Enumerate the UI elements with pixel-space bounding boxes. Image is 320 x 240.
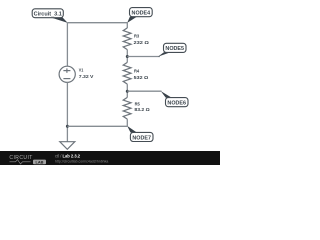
node NODE4 flag pointer [127, 17, 137, 23]
svg-text:NODE5: NODE5 [165, 46, 184, 52]
wire bottom horizontal [67, 125, 127, 127]
svg-text:V1: V1 [79, 67, 84, 72]
svg-text:NODE6: NODE6 [167, 101, 186, 107]
wire R3 to R4 [126, 50, 128, 63]
footer CircuitLab logo LAB box [33, 160, 46, 165]
node NODE6 label [166, 98, 189, 107]
svg-text:R3: R3 [134, 34, 140, 39]
wire to NODE6 flag [127, 90, 161, 92]
svg-text:R4: R4 [134, 69, 140, 74]
svg-text:7.32 V: 7.32 V [79, 74, 94, 80]
node NODE7 label [130, 132, 153, 141]
svg-text:532 Ω: 532 Ω [134, 75, 149, 81]
wire left vertical down to V1 [66, 23, 68, 67]
wire right vertical top to R3 [126, 23, 128, 28]
svg-text:R5: R5 [135, 102, 141, 107]
node NODE5 flag pointer [158, 52, 171, 56]
svg-text:83.2 Ω: 83.2 Ω [134, 107, 149, 113]
wire V1 bottom to ground [66, 82, 68, 141]
node Circuit_3.1 label [32, 9, 63, 18]
svg-text:ctl / Lab 2.3.2: ctl / Lab 2.3.2 [55, 154, 81, 159]
node NODE4 label [130, 8, 153, 17]
node NODE6 flag pointer [161, 91, 172, 98]
svg-text:NODE7: NODE7 [132, 135, 151, 141]
node Circuit_3.1 flag pointer [51, 17, 68, 23]
resistor R4 [123, 62, 131, 84]
svg-text:CIRCUIT: CIRCUIT [9, 155, 32, 161]
resistor R5 [123, 97, 131, 119]
wire top horizontal [67, 22, 127, 24]
wire R4 to R5 [126, 84, 128, 97]
svg-text:Circuit_3.1: Circuit_3.1 [34, 12, 62, 18]
wire R5 to NODE7 corner [126, 119, 128, 126]
junction dot node5 [126, 55, 129, 58]
svg-text:LAB: LAB [36, 160, 44, 165]
svg-text:http://circuitlab.com/c4ad2rhn: http://circuitlab.com/c4ad2rhnbhka [55, 159, 108, 163]
node NODE7 flag pointer [127, 126, 137, 133]
svg-text:232 Ω: 232 Ω [134, 40, 149, 46]
junction dot node6 [126, 90, 129, 93]
ground [60, 142, 75, 150]
node NODE5 label [164, 43, 187, 52]
voltage source V1 [59, 66, 75, 82]
resistor R3 [123, 28, 131, 50]
footer bar [0, 151, 220, 165]
wire to NODE5 flag [127, 56, 160, 58]
svg-text:NODE4: NODE4 [132, 11, 151, 17]
junction dot ground node [66, 125, 69, 128]
footer CircuitLab logo wave [10, 160, 31, 164]
